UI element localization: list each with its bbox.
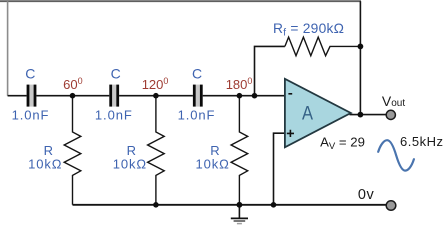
svg-text:C: C bbox=[192, 65, 203, 81]
svg-text:C: C bbox=[111, 65, 122, 81]
svg-text:1.0nF: 1.0nF bbox=[95, 108, 133, 123]
svg-text:10kΩ: 10kΩ bbox=[113, 156, 147, 171]
svg-text:10kΩ: 10kΩ bbox=[28, 156, 62, 171]
svg-text:0v: 0v bbox=[358, 187, 375, 203]
svg-text:1.0nF: 1.0nF bbox=[12, 108, 50, 123]
svg-text:AV = 29: AV = 29 bbox=[320, 135, 365, 152]
svg-text:10kΩ: 10kΩ bbox=[196, 156, 230, 171]
svg-text:A: A bbox=[302, 102, 314, 124]
svg-text:1.0nF: 1.0nF bbox=[178, 108, 216, 123]
svg-text:6.5kHz: 6.5kHz bbox=[400, 134, 443, 149]
svg-text:C: C bbox=[25, 65, 36, 81]
